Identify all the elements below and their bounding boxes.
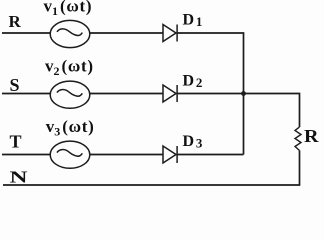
svg-text:T: T <box>10 131 22 151</box>
svg-text:N: N <box>10 168 29 187</box>
svg-text:R: R <box>9 12 22 31</box>
svg-text:D1: D1 <box>183 12 203 30</box>
svg-text:v2(ωt): v2(ωt) <box>45 57 94 79</box>
svg-text:v3(ωt): v3(ωt) <box>46 117 95 139</box>
svg-text:v1(ωt): v1(ωt) <box>44 0 93 18</box>
svg-text:D3: D3 <box>183 133 203 151</box>
svg-text:R: R <box>304 126 320 146</box>
svg-text:S: S <box>10 75 20 95</box>
svg-text:D2: D2 <box>183 73 203 91</box>
